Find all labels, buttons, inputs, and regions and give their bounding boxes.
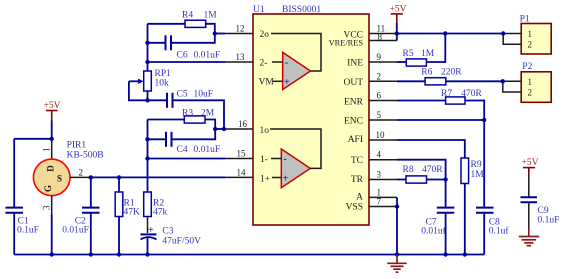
node: VCC junction bbox=[395, 31, 399, 35]
node: VSS junction bbox=[395, 204, 399, 208]
svg-text:7: 7 bbox=[377, 197, 382, 207]
connector P2 bbox=[503, 62, 551, 102]
resistor R3 2M bbox=[148, 108, 216, 129]
svg-text:TC: TC bbox=[351, 156, 363, 166]
svg-text:1: 1 bbox=[528, 77, 533, 87]
svg-text:+5V: +5V bbox=[522, 158, 539, 168]
resistor R7 470R bbox=[397, 89, 484, 120]
U1 left pin stubs bbox=[225, 34, 253, 178]
capacitor C8 0.1uf bbox=[476, 120, 509, 255]
svg-text:0.01uF: 0.01uF bbox=[194, 51, 221, 61]
node: R3 junction bbox=[213, 127, 217, 131]
+5V supply (left, PIR) bbox=[44, 101, 61, 139]
svg-text:6: 6 bbox=[377, 91, 382, 101]
svg-text:A: A bbox=[356, 193, 363, 203]
capacitor C3 47uF/50V (polarized) bbox=[141, 225, 202, 255]
svg-text:VM: VM bbox=[259, 78, 275, 88]
node: C7 bus junction bbox=[443, 252, 447, 256]
U1 right pin names bbox=[329, 30, 364, 212]
svg-text:47k: 47k bbox=[153, 208, 168, 218]
svg-text:G: G bbox=[43, 185, 53, 192]
svg-text:+5V: +5V bbox=[390, 5, 407, 15]
svg-text:47uF/50V: 47uF/50V bbox=[162, 237, 201, 247]
svg-text:INE: INE bbox=[347, 59, 363, 69]
svg-text:3: 3 bbox=[42, 205, 52, 210]
U1 right pin stubs bbox=[369, 34, 397, 207]
node: C5 junction bbox=[222, 127, 226, 131]
node: RP1/C5 junction bbox=[145, 98, 149, 102]
+5V supply (right, C9) bbox=[522, 158, 539, 197]
svg-text:+: + bbox=[284, 77, 290, 88]
svg-text:47K: 47K bbox=[124, 208, 141, 218]
svg-text:2: 2 bbox=[377, 71, 382, 81]
resistor R1 47K bbox=[115, 177, 140, 254]
svg-text:4: 4 bbox=[377, 150, 382, 160]
svg-text:2M: 2M bbox=[201, 108, 215, 118]
svg-text:2: 2 bbox=[79, 168, 84, 178]
svg-text:8: 8 bbox=[378, 32, 383, 42]
wire: A pin to VSS bbox=[396, 197, 398, 206]
svg-text:OUT: OUT bbox=[343, 78, 363, 88]
svg-text:2: 2 bbox=[528, 40, 533, 50]
svg-text:C4: C4 bbox=[177, 145, 188, 155]
potentiometer RP1 10k bbox=[129, 69, 171, 101]
svg-text:12: 12 bbox=[236, 24, 245, 34]
node: TC/R8 junction bbox=[443, 177, 447, 181]
wire: PIR pin2 to U1 pin14 row bbox=[91, 176, 225, 178]
svg-text:C3: C3 bbox=[162, 226, 173, 236]
capacitor C7 0.01uf bbox=[421, 208, 454, 255]
node: ENC/R7 junction bbox=[482, 118, 486, 122]
svg-text:VSS: VSS bbox=[346, 202, 363, 212]
node: VSS bus junction bbox=[395, 252, 399, 256]
svg-text:13: 13 bbox=[236, 52, 246, 62]
svg-text:KB-500B: KB-500B bbox=[67, 150, 104, 160]
svg-text:R4: R4 bbox=[182, 11, 193, 21]
svg-text:1M: 1M bbox=[421, 49, 435, 59]
op-amp U1B (bottom amplifier) bbox=[270, 129, 321, 188]
svg-text:R8: R8 bbox=[403, 165, 414, 175]
+5V supply (top, VCC) bbox=[390, 5, 407, 34]
node: +5V/PIR/C1 junction bbox=[50, 137, 54, 141]
capacitor C6 0.01uF bbox=[148, 34, 221, 61]
svg-text:0.01uF: 0.01uF bbox=[194, 145, 221, 155]
node: pin12 junction bbox=[213, 31, 217, 35]
op-amp U1A (top amplifier) bbox=[271, 34, 321, 90]
svg-text:ENR: ENR bbox=[344, 97, 364, 107]
svg-text:TR: TR bbox=[351, 175, 364, 185]
svg-text:9: 9 bbox=[377, 52, 382, 62]
svg-text:R6: R6 bbox=[421, 68, 432, 78]
svg-text:470R: 470R bbox=[422, 165, 443, 175]
wire: ENC row to C8 riser bbox=[397, 119, 484, 121]
svg-text:D: D bbox=[46, 165, 56, 172]
svg-text:0.01uf: 0.01uf bbox=[421, 226, 446, 237]
svg-text:1+: 1+ bbox=[260, 174, 270, 184]
svg-text:3: 3 bbox=[377, 170, 382, 180]
svg-text:0.1uf: 0.1uf bbox=[489, 226, 510, 237]
svg-text:+5V: +5V bbox=[44, 101, 61, 111]
svg-text:1o: 1o bbox=[260, 126, 270, 136]
svg-text:ENC: ENC bbox=[344, 117, 363, 127]
svg-text:10: 10 bbox=[376, 130, 386, 140]
ground (main) bbox=[387, 255, 407, 273]
ground (C9) bbox=[519, 237, 539, 246]
wire: R3/C4 left rail down to pin15 bbox=[147, 120, 149, 159]
wire: VCC row to P1 bbox=[397, 33, 503, 35]
wire: VSS down to bus bbox=[396, 207, 398, 255]
node: R9 bus junction bbox=[463, 252, 467, 256]
svg-text:0.1uF: 0.1uF bbox=[17, 226, 39, 236]
U1 right pin numbers bbox=[376, 24, 386, 207]
U1 left pin names bbox=[259, 30, 275, 184]
node: P2 junction bbox=[501, 79, 505, 83]
capacitor C2 0.01uF bbox=[62, 177, 99, 254]
wire: +5V to C1 top bbox=[14, 138, 52, 140]
PIR sensor PIR1 KB-500B bbox=[33, 139, 103, 255]
op-amp IC U1 BISS0001 body bbox=[253, 5, 369, 225]
resistor R4 1M bbox=[148, 11, 218, 34]
svg-text:0.1uF: 0.1uF bbox=[538, 215, 560, 225]
svg-text:R9: R9 bbox=[471, 160, 482, 170]
wire: ground bus bbox=[14, 254, 484, 256]
resistor R9 1M bbox=[461, 158, 484, 255]
svg-text:1M: 1M bbox=[471, 170, 485, 180]
svg-text:AFI: AFI bbox=[348, 135, 363, 145]
svg-text:U1: U1 bbox=[253, 5, 265, 15]
svg-text:R7: R7 bbox=[441, 89, 452, 99]
wire: pin8 riser bbox=[396, 34, 398, 41]
connector P1 bbox=[503, 15, 551, 54]
capacitor C4 0.01uF bbox=[148, 129, 221, 155]
svg-text:PIR1: PIR1 bbox=[67, 140, 87, 150]
svg-text:RP1: RP1 bbox=[155, 69, 172, 79]
wire: pin13 row bbox=[148, 61, 226, 63]
svg-text:10uF: 10uF bbox=[194, 90, 214, 100]
svg-text:VRE/RES: VRE/RES bbox=[329, 39, 364, 48]
resistor R5 1M bbox=[397, 34, 445, 67]
svg-text:0.01uF: 0.01uF bbox=[62, 226, 89, 236]
svg-text:2o: 2o bbox=[260, 30, 270, 40]
svg-text:1: 1 bbox=[528, 29, 533, 39]
svg-text:C6: C6 bbox=[177, 51, 188, 61]
svg-text:470R: 470R bbox=[461, 89, 482, 99]
wire: left feedback rail (R4/C6/pin13/RP1) bbox=[147, 24, 149, 71]
wire: pin15 row bbox=[148, 158, 226, 160]
svg-text:R5: R5 bbox=[403, 49, 414, 59]
resistor R2 47k bbox=[144, 159, 168, 234]
svg-text:+: + bbox=[283, 173, 289, 184]
capacitor C9 0.1uF bbox=[521, 197, 560, 236]
svg-text:-: - bbox=[283, 154, 286, 165]
resistor R6 220R bbox=[397, 68, 503, 85]
wire: pin12 bbox=[215, 33, 225, 35]
U1 left pin numbers bbox=[236, 24, 248, 178]
svg-text:16: 16 bbox=[238, 119, 248, 129]
svg-text:-: - bbox=[285, 58, 288, 69]
svg-text:5: 5 bbox=[377, 110, 382, 120]
svg-text:15: 15 bbox=[237, 149, 247, 159]
resistor R8 470R bbox=[397, 165, 446, 183]
capacitor C1 0.1uF bbox=[6, 139, 39, 255]
wire: AFI row bbox=[397, 140, 465, 158]
wire: TC row bbox=[397, 160, 446, 207]
node: R5 top junction bbox=[443, 31, 447, 35]
svg-text:R3: R3 bbox=[182, 108, 193, 118]
svg-text:1M: 1M bbox=[204, 11, 218, 21]
svg-text:14: 14 bbox=[237, 167, 247, 177]
svg-text:C5: C5 bbox=[177, 90, 188, 100]
svg-text:1-: 1- bbox=[260, 155, 268, 165]
node: C2 tap bbox=[89, 175, 93, 179]
svg-text:2-: 2- bbox=[260, 59, 268, 69]
svg-text:220R: 220R bbox=[441, 68, 462, 78]
wire: pin16 row bbox=[215, 128, 225, 130]
svg-text:1: 1 bbox=[42, 148, 52, 153]
svg-text:2: 2 bbox=[528, 88, 533, 98]
svg-text:S: S bbox=[57, 174, 62, 184]
node: P1 junction bbox=[501, 31, 505, 35]
node: bus junctions bbox=[50, 252, 54, 256]
svg-text:10k: 10k bbox=[155, 79, 170, 89]
svg-text:BISS0001: BISS0001 bbox=[282, 5, 321, 15]
capacitor C5 10uF bbox=[148, 90, 225, 130]
node: R1 tap bbox=[117, 175, 121, 179]
svg-text:P2: P2 bbox=[522, 62, 532, 72]
